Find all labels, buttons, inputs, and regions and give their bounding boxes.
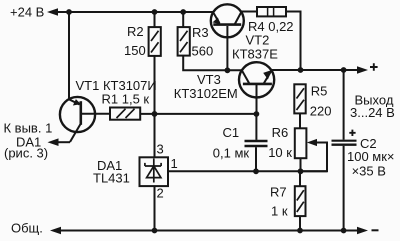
wire top rail +24V (54, 11, 213, 13)
wire DA1 pin1 (reference rail) (168, 170, 327, 172)
node top rail / VT1 emitter (66, 9, 72, 15)
wire C2 top lead (343, 70, 345, 140)
wire R2 bottom to node A (154, 56, 156, 114)
label − (output minus) (372, 229, 379, 231)
svg-text:К выв. 1: К выв. 1 (4, 121, 53, 136)
arrow +24V input (47, 8, 58, 16)
svg-text:560: 560 (192, 44, 214, 59)
wire output rail (272, 69, 362, 71)
wire VT1 emitter from rail (68, 12, 70, 99)
wire VT2 collector to R4 (242, 11, 257, 13)
node VT3 base / C1 (254, 111, 260, 117)
arrow output plus (357, 66, 368, 74)
svg-text:C1: C1 (223, 125, 240, 140)
wire VT3 base (256, 85, 258, 114)
svg-text:150: 150 (124, 43, 146, 58)
svg-text:TL431: TL431 (93, 170, 130, 185)
resistor R7 (295, 186, 306, 216)
transistor VT2 (211, 4, 244, 37)
node R6 / R7 / wiper (298, 168, 304, 174)
svg-text:(рис. 3): (рис. 3) (4, 146, 48, 161)
svg-text:2: 2 (157, 186, 164, 201)
wire R7 top lead (299, 171, 301, 186)
wire C1 top lead (255, 114, 257, 140)
label + (C2 polarity) (349, 130, 355, 136)
svg-text:КТ837Е: КТ837Е (232, 47, 278, 62)
resistor R2 (149, 27, 161, 56)
svg-text:×35 В: ×35 В (352, 164, 386, 179)
svg-text:R4 0,22: R4 0,22 (248, 19, 294, 34)
wire R7 bottom lead (299, 216, 301, 230)
node common / R7 (297, 228, 303, 234)
wire VT1 base to R1 (82, 113, 110, 115)
svg-text:КТ3102ЕМ: КТ3102ЕМ (174, 86, 238, 101)
svg-text:3...24 В: 3...24 В (350, 105, 395, 120)
svg-text:1 к: 1 к (271, 204, 288, 219)
label + (output) (370, 63, 378, 71)
node VT2 base / R3 / VT3 collector (225, 67, 231, 73)
wire VT2 base (226, 26, 228, 70)
wire DA1 pin3 (cathode) (154, 114, 156, 157)
node output / R5 (298, 67, 304, 73)
transistor VT1 (60, 97, 95, 142)
node top rail / R2 (152, 9, 158, 15)
node common / DA1 pin2 (152, 228, 158, 234)
capacitor C2 (332, 141, 357, 145)
svg-text:0,1 мк: 0,1 мк (213, 146, 250, 161)
node C1 / ref rail (253, 168, 259, 174)
wire DA1 pin2 (anode) (154, 186, 156, 230)
wire R6 wiper return (301, 143, 328, 172)
resistor R4 (257, 7, 286, 16)
wire R2 top lead (154, 12, 156, 27)
wire R4 to output rail (286, 12, 301, 71)
svg-text:10 к: 10 к (268, 145, 292, 160)
capacitor C1 (245, 141, 268, 146)
node A (R1/R2/DA1 cathode) (152, 111, 158, 117)
wire R3 top lead (182, 12, 184, 27)
svg-text:1: 1 (171, 156, 178, 171)
wire C2 bottom lead (343, 146, 345, 231)
svg-text:R6: R6 (272, 125, 289, 140)
wire R5 to R6 (299, 113, 301, 128)
svg-text:R2: R2 (127, 24, 144, 39)
wire R6 bottom (300, 158, 302, 171)
wire R1 to node A (140, 113, 256, 115)
node top rail / R3 (180, 9, 186, 15)
node common / C2 (341, 228, 347, 234)
IC DA1 TL431 (140, 157, 169, 186)
potentiometer R6 (295, 128, 307, 158)
svg-text:VT2: VT2 (246, 33, 270, 48)
resistor R5 (294, 84, 305, 113)
arrow common left (50, 227, 61, 235)
wire VT1 collector to DA1 pin1 arrow (56, 141, 70, 143)
svg-text:3: 3 (157, 142, 164, 157)
transistor VT3 (239, 62, 274, 97)
wire R3 bottom to VT2 base node (183, 56, 242, 71)
svg-text:VT3: VT3 (197, 72, 221, 87)
svg-text:+24 В: +24 В (10, 5, 44, 20)
node output / C2 (341, 67, 347, 73)
svg-text:R5: R5 (311, 84, 328, 99)
wire C1 bottom lead (255, 147, 257, 171)
wire bottom rail (common) (57, 230, 362, 232)
svg-text:R1 1,5 к: R1 1,5 к (102, 92, 150, 107)
arrow to DA1 pin 1 (fig.3) (48, 138, 59, 146)
svg-text:R3: R3 (192, 25, 209, 40)
arrow output minus (357, 227, 368, 235)
svg-text:220: 220 (310, 104, 332, 119)
arrow R6 wiper (307, 139, 317, 146)
resistor R1 (110, 108, 140, 120)
svg-text:100 мк×: 100 мк× (347, 149, 395, 164)
svg-text:Общ.: Общ. (11, 221, 43, 236)
resistor R3 (178, 27, 190, 55)
svg-text:R7: R7 (270, 185, 287, 200)
